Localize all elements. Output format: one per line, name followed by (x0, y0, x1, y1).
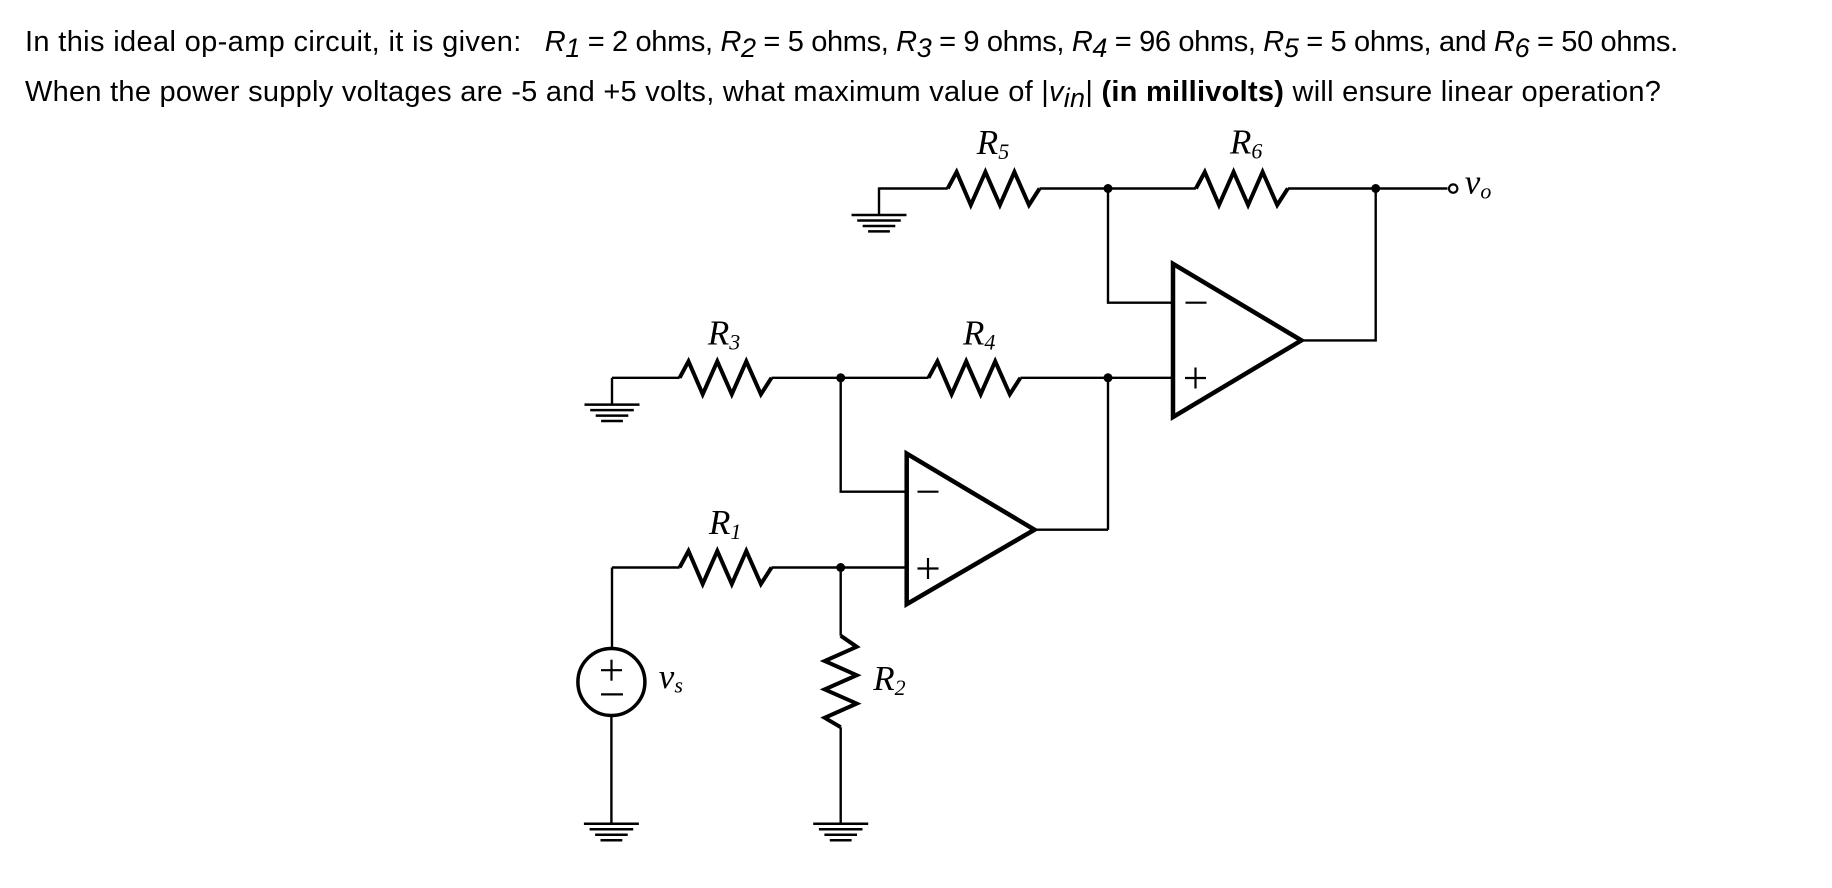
svg-text:R6: R6 (1229, 123, 1262, 164)
svg-text:vo: vo (1465, 163, 1492, 204)
svg-text:R3: R3 (707, 313, 740, 354)
svg-text:R1: R1 (708, 503, 741, 544)
svg-text:vs: vs (659, 657, 683, 698)
svg-text:R2: R2 (872, 659, 905, 700)
svg-text:R5: R5 (976, 123, 1009, 164)
svg-text:R4: R4 (962, 313, 995, 354)
